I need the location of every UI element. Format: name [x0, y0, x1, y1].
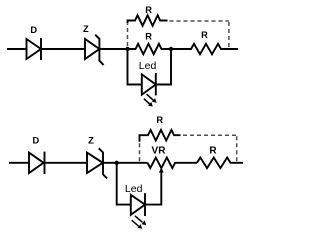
LED branch wire and wiper arrow to VR (bottom circuit)	[145, 167, 164, 204]
LED Led (top circuit)	[142, 73, 156, 95]
svg-text:D: D	[32, 136, 39, 146]
node junction dot (bottom circuit)	[115, 161, 119, 165]
resistor R (bottom circuit, dashed branch)	[140, 130, 181, 142]
svg-text:Led: Led	[139, 60, 157, 72]
wire (top circuit input lead)	[7, 48, 27, 50]
LED emission arrow 2 (bottom circuit)	[132, 220, 143, 229]
resistor R (top circuit, dashed branch)	[128, 15, 168, 26]
resistor R (bottom circuit, right)	[197, 158, 243, 169]
dashed feedback box (top circuit)	[128, 21, 229, 48]
svg-text:Z: Z	[83, 24, 89, 34]
node A junction dot (top circuit)	[125, 47, 129, 51]
wire dashed vertical left (top circuit)	[127, 24, 129, 46]
diode D (bottom circuit)	[29, 152, 45, 174]
svg-text:D: D	[30, 25, 37, 35]
dashed feedback box (bottom circuit)	[140, 135, 237, 161]
wire dashed vertical right (top circuit)	[228, 22, 230, 48]
svg-text:R: R	[145, 32, 152, 42]
wire (bottom circuit input lead)	[9, 162, 29, 164]
wire dashed horizontal (top circuit)	[170, 20, 229, 22]
LED branch wire (node down and across, bottom circuit)	[117, 163, 131, 205]
svg-text:Led: Led	[125, 183, 143, 195]
wire dashed vertical right (bottom circuit)	[236, 136, 238, 161]
LED emission arrow 1 (top circuit)	[147, 94, 157, 103]
svg-text:Z: Z	[88, 136, 94, 146]
variable resistor VR (bottom circuit)	[148, 158, 198, 169]
zener diode Z (bottom circuit)	[87, 148, 107, 178]
wire (zener Z to node A, top circuit)	[99, 48, 127, 50]
svg-text:VR: VR	[152, 146, 167, 157]
LED Led (bottom circuit)	[131, 193, 145, 216]
diode D (top circuit)	[27, 38, 42, 60]
LED emission arrow 1 (bottom circuit)	[135, 216, 146, 225]
wire (diode D to zener Z, top circuit)	[41, 48, 85, 50]
svg-text:R: R	[145, 5, 152, 15]
svg-text:R: R	[201, 30, 208, 40]
wire (zener Z to VR, bottom circuit)	[103, 162, 148, 164]
LED branch wire (LED to node B, top circuit)	[156, 49, 171, 85]
resistor R (top circuit, middle)	[128, 44, 172, 54]
svg-text:R: R	[209, 145, 217, 156]
node B junction dot (top circuit)	[169, 47, 173, 51]
resistor R (top circuit, right)	[171, 44, 238, 54]
zener diode Z (top circuit)	[85, 35, 104, 65]
LED branch wire (node A down and across, top circuit)	[128, 49, 142, 85]
wire (diode D to zener Z, bottom circuit)	[45, 162, 88, 164]
wire dashed horizontal (bottom circuit)	[183, 134, 237, 136]
svg-text:R: R	[156, 115, 163, 125]
wire dashed vertical left (bottom circuit)	[139, 143, 141, 161]
LED emission arrow 2 (top circuit)	[144, 99, 153, 107]
